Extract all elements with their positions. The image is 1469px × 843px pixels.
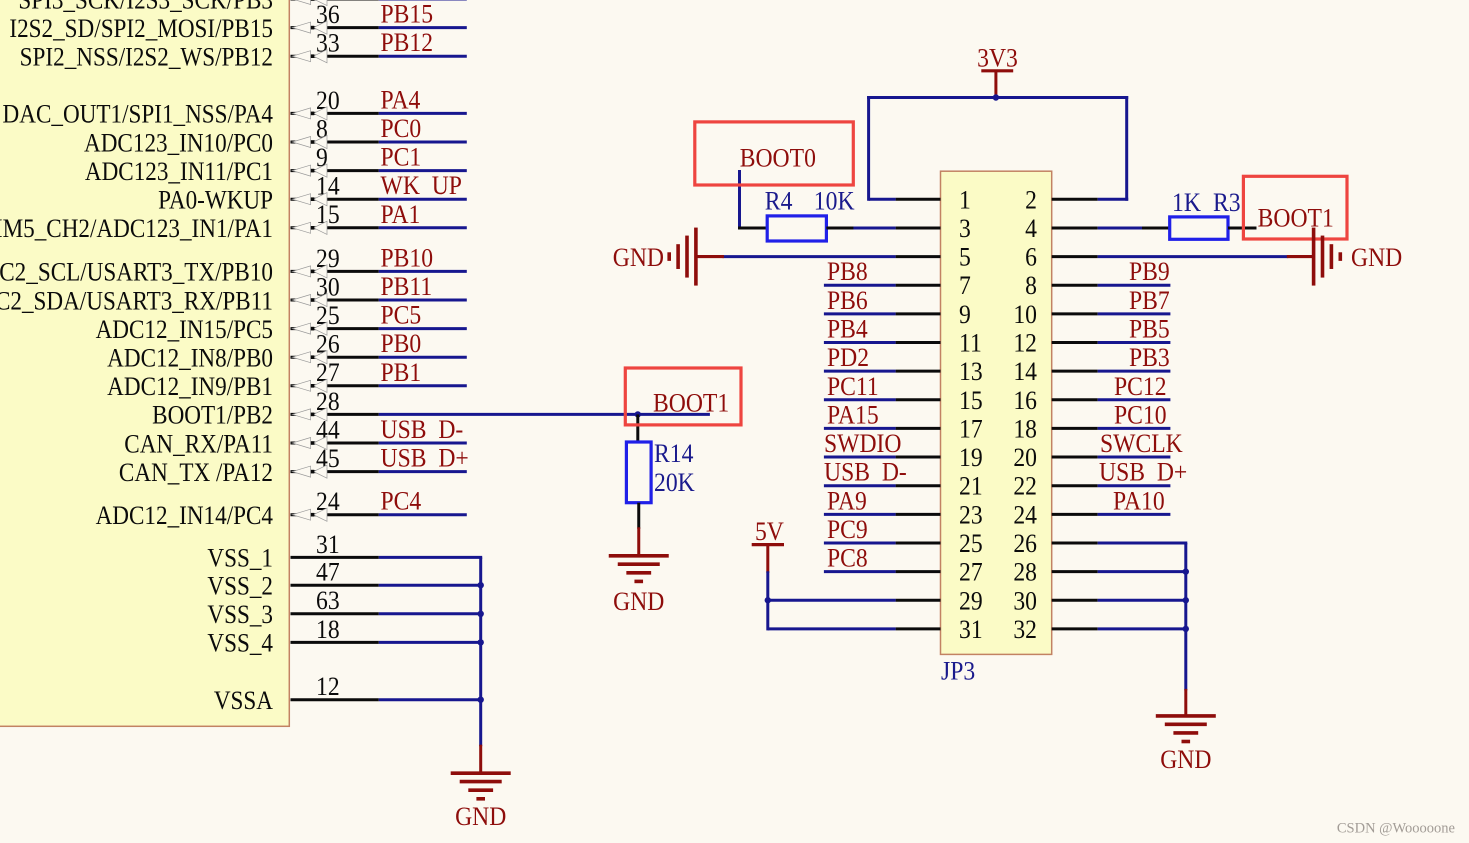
svg-text:ADC12_IN8/PB0: ADC12_IN8/PB0 [107, 344, 273, 373]
svg-text:23: 23 [959, 501, 983, 529]
svg-text:28: 28 [1013, 559, 1037, 587]
svg-text:SWDIO: SWDIO [824, 430, 901, 458]
svg-text:USB D+: USB D+ [1099, 459, 1187, 487]
svg-text:PB15: PB15 [381, 1, 434, 29]
svg-text:PB7: PB7 [1129, 287, 1170, 315]
svg-text:30: 30 [1013, 587, 1037, 615]
svg-text:12: 12 [1013, 330, 1037, 358]
svg-text:7: 7 [959, 272, 971, 300]
svg-text:GND: GND [455, 803, 506, 831]
svg-text:GND: GND [1351, 244, 1402, 272]
svg-text:CAN_RX/PA11: CAN_RX/PA11 [124, 430, 273, 459]
svg-text:PC0: PC0 [381, 115, 422, 143]
svg-text:PB3: PB3 [1129, 344, 1170, 372]
svg-text:ADC123_IN10/PC0: ADC123_IN10/PC0 [84, 129, 273, 158]
svg-text:ADC12_IN15/PC5: ADC12_IN15/PC5 [96, 316, 273, 345]
svg-text:3: 3 [959, 215, 971, 243]
svg-text:PC10: PC10 [1114, 401, 1167, 429]
svg-text:2: 2 [1025, 186, 1037, 214]
svg-text:JP3: JP3 [941, 658, 975, 686]
svg-text:5V: 5V [755, 518, 784, 546]
svg-text:47: 47 [316, 559, 340, 587]
svg-text:14: 14 [1013, 358, 1037, 386]
svg-text:29: 29 [959, 587, 983, 615]
svg-text:1: 1 [959, 186, 971, 214]
svg-text:19: 19 [959, 444, 983, 472]
svg-text:DAC_OUT1/SPI1_NSS/PA4: DAC_OUT1/SPI1_NSS/PA4 [3, 101, 273, 130]
svg-text:SPI2_NSS/I2S2_WS/PB12: SPI2_NSS/I2S2_WS/PB12 [20, 43, 273, 72]
svg-text:CSDN @Wooooone: CSDN @Wooooone [1337, 821, 1455, 837]
svg-text:BOOT1/PB2: BOOT1/PB2 [152, 402, 273, 431]
svg-text:PB11: PB11 [381, 273, 433, 301]
svg-text:PC1: PC1 [381, 144, 422, 172]
svg-text:BOOT0: BOOT0 [740, 145, 816, 173]
svg-text:PB0: PB0 [381, 330, 422, 358]
svg-text:11: 11 [959, 330, 982, 358]
svg-text:USB D-: USB D- [381, 416, 464, 444]
svg-text:12: 12 [316, 673, 340, 701]
svg-text:20K: 20K [654, 469, 695, 497]
svg-text:PB4: PB4 [827, 316, 868, 344]
svg-text:22: 22 [1013, 473, 1037, 501]
svg-text:BOOT1: BOOT1 [1258, 205, 1334, 233]
svg-text:I2C2_SDA/USART3_RX/PB11: I2C2_SDA/USART3_RX/PB11 [0, 287, 273, 316]
svg-text:27: 27 [959, 559, 983, 587]
svg-text:TIM5_CH2/ADC123_IN1/PA1: TIM5_CH2/ADC123_IN1/PA1 [0, 215, 273, 244]
svg-text:PB10: PB10 [381, 244, 434, 272]
svg-text:24: 24 [1013, 501, 1037, 529]
svg-text:63: 63 [316, 587, 340, 615]
svg-text:9: 9 [959, 301, 971, 329]
svg-text:R14: R14 [654, 440, 694, 468]
svg-text:25: 25 [959, 530, 983, 558]
svg-text:5: 5 [959, 244, 971, 272]
svg-text:VSS_3: VSS_3 [207, 601, 273, 630]
svg-text:31: 31 [316, 531, 340, 559]
svg-text:PB9: PB9 [1129, 258, 1170, 286]
svg-text:GND: GND [613, 244, 664, 272]
svg-text:VSS_2: VSS_2 [207, 572, 273, 601]
svg-text:16: 16 [1013, 387, 1037, 415]
svg-text:VSSA: VSSA [214, 687, 273, 716]
svg-text:R4: R4 [765, 187, 793, 215]
svg-text:BOOT1: BOOT1 [653, 390, 729, 418]
svg-text:26: 26 [1013, 530, 1037, 558]
svg-text:SPI3_SCK/I2S3_SCK/PB3: SPI3_SCK/I2S3_SCK/PB3 [18, 0, 273, 15]
svg-text:6: 6 [1025, 244, 1037, 272]
svg-text:VSS_1: VSS_1 [207, 545, 273, 574]
svg-text:8: 8 [1025, 272, 1037, 300]
svg-text:PA15: PA15 [827, 401, 879, 429]
svg-text:GND: GND [613, 588, 664, 616]
svg-text:PC8: PC8 [827, 545, 868, 573]
svg-text:3V3: 3V3 [977, 45, 1018, 73]
svg-text:18: 18 [1013, 415, 1037, 443]
svg-text:I2C2_SCL/USART3_TX/PB10: I2C2_SCL/USART3_TX/PB10 [0, 259, 273, 288]
svg-text:GND: GND [1160, 746, 1211, 774]
svg-text:PA9: PA9 [827, 487, 867, 515]
svg-text:R3: R3 [1213, 189, 1241, 217]
svg-text:PC4: PC4 [381, 488, 422, 516]
svg-text:PA4: PA4 [381, 86, 421, 114]
svg-text:PB1: PB1 [381, 359, 422, 387]
svg-text:17: 17 [959, 415, 983, 443]
svg-text:31: 31 [959, 616, 983, 644]
svg-text:10K: 10K [814, 187, 855, 215]
svg-text:USB D+: USB D+ [381, 445, 469, 473]
svg-text:21: 21 [959, 473, 983, 501]
svg-text:PA10: PA10 [1113, 487, 1165, 515]
svg-text:PA1: PA1 [381, 201, 421, 229]
svg-text:ADC12_IN14/PC4: ADC12_IN14/PC4 [96, 502, 273, 531]
svg-text:32: 32 [1013, 616, 1037, 644]
svg-text:PB5: PB5 [1129, 316, 1170, 344]
svg-text:18: 18 [316, 616, 340, 644]
svg-text:ADC12_IN9/PB1: ADC12_IN9/PB1 [107, 373, 273, 402]
svg-text:SWCLK: SWCLK [1100, 430, 1183, 458]
svg-text:CAN_TX /PA12: CAN_TX /PA12 [119, 459, 273, 488]
svg-text:USB D-: USB D- [824, 459, 907, 487]
svg-text:VSS_4: VSS_4 [207, 630, 273, 659]
svg-text:PC12: PC12 [1114, 373, 1167, 401]
svg-text:15: 15 [959, 387, 983, 415]
svg-text:PC5: PC5 [381, 302, 422, 330]
svg-text:13: 13 [959, 358, 983, 386]
svg-text:1K: 1K [1172, 189, 1201, 217]
svg-text:WK UP: WK UP [381, 172, 462, 200]
svg-text:I2S2_SD/SPI2_MOSI/PB15: I2S2_SD/SPI2_MOSI/PB15 [9, 15, 273, 44]
svg-text:4: 4 [1025, 215, 1037, 243]
svg-text:10: 10 [1013, 301, 1037, 329]
svg-text:PB8: PB8 [827, 258, 868, 286]
svg-text:20: 20 [1013, 444, 1037, 472]
svg-text:PA0-WKUP: PA0-WKUP [158, 186, 273, 215]
svg-text:ADC123_IN11/PC1: ADC123_IN11/PC1 [85, 158, 273, 187]
svg-text:PC9: PC9 [827, 516, 868, 544]
svg-text:PB6: PB6 [827, 287, 868, 315]
svg-text:PC11: PC11 [827, 373, 879, 401]
svg-text:PB12: PB12 [381, 29, 434, 57]
svg-text:PD2: PD2 [827, 344, 869, 372]
